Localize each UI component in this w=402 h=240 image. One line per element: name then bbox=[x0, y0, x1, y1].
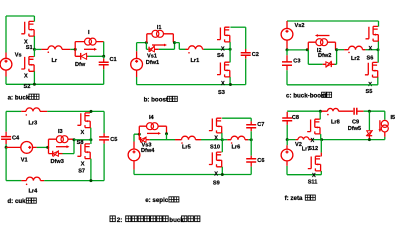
node2 d bbox=[89, 138, 92, 141]
wire: top rail d left bbox=[6, 110, 21, 112]
svg-text:f: zeta: f: zeta bbox=[285, 195, 303, 202]
svg-text:Lr6: Lr6 bbox=[232, 145, 241, 151]
inductor Lr8 bbox=[322, 108, 354, 115]
svg-text:X: X bbox=[312, 173, 316, 179]
wire: node to S5 drain bbox=[377, 50, 379, 63]
svg-text:X: X bbox=[214, 171, 218, 177]
svg-text:C8: C8 bbox=[292, 115, 299, 121]
node S12-rail bbox=[319, 110, 322, 113]
current source I1 top branch bbox=[147, 30, 174, 42]
node C7-C6 e bbox=[250, 138, 253, 141]
transistor S7 bbox=[77, 144, 91, 159]
svg-text:S4: S4 bbox=[217, 53, 225, 59]
wire: bottom rail b bbox=[137, 84, 246, 86]
wire: top rail f left bbox=[287, 110, 320, 112]
wire: Vs3 to bottom rail bbox=[133, 170, 135, 175]
wire: diode return to node1 d bbox=[63, 140, 75, 154]
wire: node2 to S7 drain bbox=[90, 140, 92, 144]
node Dfw5-rail bbox=[368, 110, 371, 113]
wire: bottom rail d right bbox=[44, 180, 104, 182]
wire: loop right down and mid wire to Lr5 bbox=[150, 134, 175, 140]
arrow: current direction a bbox=[84, 48, 97, 51]
transistor S9 bbox=[209, 152, 223, 167]
transistor S4 bbox=[217, 27, 231, 42]
wire: left rail a upper bbox=[5, 16, 7, 53]
capacitor C2 bbox=[241, 27, 251, 84]
svg-text:X: X bbox=[24, 74, 28, 80]
svg-text:S7: S7 bbox=[78, 169, 85, 175]
wire: Dfw5 branch upper bbox=[368, 111, 370, 130]
wire: S9 source to rail bbox=[221, 167, 223, 175]
arrow: current direction d bbox=[56, 145, 70, 148]
wire: jog to Lr1 bbox=[175, 43, 186, 50]
svg-text:C9: C9 bbox=[352, 120, 359, 126]
svg-text:Dfw3: Dfw3 bbox=[51, 159, 64, 165]
svg-text:e: sepic: e: sepic bbox=[145, 197, 169, 204]
transistor S11 bbox=[308, 156, 322, 171]
wire: node1 to node2 d bbox=[74, 139, 91, 141]
node loop-left e bbox=[138, 133, 141, 136]
wire: V1 to loop node bbox=[37, 146, 48, 148]
inductor Lr2 bbox=[344, 46, 365, 53]
wire: Lr to node A2 bbox=[70, 48, 75, 50]
svg-text:S10: S10 bbox=[210, 145, 220, 151]
wire: top rail e bbox=[222, 117, 251, 119]
diode Dfw4 bbox=[139, 134, 150, 143]
main caption bbox=[110, 216, 200, 224]
svg-text:C6: C6 bbox=[257, 158, 264, 164]
diode Dfw1 bbox=[146, 43, 158, 52]
svg-text:X: X bbox=[81, 130, 85, 136]
svg-text:Dfw5: Dfw5 bbox=[348, 126, 361, 132]
transistor S8 bbox=[77, 113, 91, 128]
wire: bottom rail f bbox=[287, 171, 321, 175]
svg-text:Lr8: Lr8 bbox=[331, 120, 340, 126]
node switch b bbox=[229, 48, 232, 51]
svg-text:Lr1: Lr1 bbox=[191, 58, 200, 64]
inductor Lr1 bbox=[186, 46, 204, 54]
inductor Lr7 bbox=[296, 137, 312, 140]
svg-text:c: buck-boost: c: buck-boost bbox=[286, 92, 327, 99]
svg-text:Lr: Lr bbox=[52, 58, 58, 64]
wire: node A1 to Lr bbox=[34, 48, 41, 50]
wire: bottom rail a bbox=[6, 83, 104, 85]
current source I2 top branch bbox=[308, 39, 335, 50]
node Dfw5 bottom bbox=[368, 138, 371, 141]
transistor S5 bbox=[365, 62, 379, 77]
wire: loop bottom c bbox=[308, 50, 336, 65]
wire: Lr6 to C-node e bbox=[248, 139, 251, 141]
svg-text:X: X bbox=[81, 162, 85, 168]
arrow: current direction b bbox=[152, 44, 167, 47]
wire: loop to Lr2 bbox=[337, 49, 345, 51]
node S12 source bbox=[320, 138, 323, 141]
wire: S3 source to rail bbox=[229, 77, 231, 85]
diode Dfw5 bbox=[366, 130, 373, 139]
transistor S6 bbox=[366, 26, 380, 41]
svg-text:V2: V2 bbox=[295, 142, 302, 148]
transistor S12 bbox=[307, 119, 321, 134]
wire: Lr1 to switch node b bbox=[204, 48, 230, 50]
wire: node A1 to S2 drain bbox=[33, 49, 35, 56]
node loop-right e bbox=[165, 132, 168, 135]
svg-text:S8: S8 bbox=[77, 140, 84, 146]
svg-text:X: X bbox=[221, 81, 225, 87]
voltage source Vs1 bbox=[131, 51, 143, 77]
svg-text:Dfw2: Dfw2 bbox=[318, 53, 331, 59]
svg-text:Lr4: Lr4 bbox=[29, 189, 39, 195]
junction S2-rail bbox=[33, 83, 36, 86]
transistor S3 bbox=[217, 62, 231, 77]
wire: diode to node B bbox=[88, 55, 104, 57]
wire: S7 source to bottom rail bbox=[90, 159, 92, 181]
svg-text:Lr2: Lr2 bbox=[351, 56, 360, 62]
svg-text:V1: V1 bbox=[21, 158, 28, 164]
arrow: current direction e bbox=[147, 132, 161, 135]
wire: S6 source to node bbox=[377, 41, 379, 49]
inductor Lr bbox=[41, 46, 70, 53]
inductor Lr5 bbox=[175, 136, 201, 144]
svg-text:I3: I3 bbox=[58, 129, 63, 135]
wire: bottom rail d left bbox=[6, 180, 21, 182]
svg-text:Dfw: Dfw bbox=[75, 62, 86, 68]
current source I5 bbox=[381, 111, 388, 139]
wire: bottom rail c bbox=[287, 84, 378, 86]
diode Dfw3 bbox=[49, 147, 63, 156]
svg-text:Vs1: Vs1 bbox=[147, 54, 157, 60]
svg-text:Vs2: Vs2 bbox=[295, 23, 305, 29]
diode Dfw2 bbox=[323, 61, 335, 68]
transistor S1 bbox=[21, 21, 35, 36]
node switch e bbox=[221, 138, 224, 141]
wire: Lr5 to switch node e bbox=[201, 139, 222, 141]
node A1 junction bbox=[33, 48, 36, 51]
junction S8-rail bbox=[90, 110, 93, 113]
svg-text:C7: C7 bbox=[257, 122, 264, 128]
svg-text:S11: S11 bbox=[308, 180, 318, 186]
node loop-right c bbox=[335, 48, 338, 51]
wire: V2 to bottom rail bbox=[286, 166, 288, 175]
wire: top rail c bbox=[287, 20, 379, 22]
current source I loop top branch bbox=[75, 38, 104, 49]
wire: bottom rail e bbox=[134, 174, 251, 176]
voltage source V2 bbox=[281, 140, 293, 166]
wire: S10 source to node bbox=[221, 133, 223, 140]
capacitor C5 bbox=[99, 111, 109, 180]
capacitor C7 bbox=[246, 118, 256, 140]
wire: S4 drain to top rail b bbox=[230, 26, 245, 28]
transistor S2 bbox=[21, 57, 35, 72]
svg-text:Dfw1: Dfw1 bbox=[146, 60, 159, 66]
svg-text:X: X bbox=[221, 47, 225, 53]
svg-text:C1: C1 bbox=[110, 57, 117, 63]
node1 d bbox=[73, 138, 76, 141]
voltage source Vs bbox=[0, 53, 12, 77]
wire: S11 drain red tick bbox=[320, 153, 322, 157]
svg-text:X: X bbox=[369, 46, 373, 52]
svg-text:C4: C4 bbox=[12, 136, 20, 142]
wire: left rail d to bottom bbox=[5, 147, 7, 180]
inductor Lr4 bbox=[21, 177, 44, 185]
voltage source V1 bbox=[6, 142, 36, 154]
svg-text:Lr3: Lr3 bbox=[29, 121, 38, 127]
current source I3 top branch bbox=[49, 136, 75, 148]
voltage source Vs3 bbox=[128, 142, 140, 170]
wire: S12 drain to rail bbox=[319, 111, 321, 119]
wire: S11 drain from node bbox=[320, 140, 322, 153]
voltage source Vs2 bbox=[281, 21, 293, 50]
node A2 junction bbox=[74, 48, 77, 51]
wire: S8 source to node2 bbox=[90, 128, 92, 140]
node switch c bbox=[377, 48, 380, 51]
wire: node to S9 drain bbox=[221, 140, 223, 153]
wire: loop right branch down bbox=[103, 42, 105, 57]
arrow: current direction c (left) bbox=[315, 34, 330, 37]
svg-text:S1: S1 bbox=[26, 45, 33, 51]
wire: diode to loop-right b bbox=[159, 43, 175, 50]
wire: S6 drain to top rail bbox=[378, 21, 380, 27]
node mid-left f bbox=[286, 138, 289, 141]
wire: S2 source to bottom rail bbox=[33, 71, 35, 84]
wire: mid wire f bbox=[287, 139, 385, 141]
svg-text:S2: S2 bbox=[24, 84, 31, 90]
capacitor C6 bbox=[246, 140, 256, 175]
svg-text:Lr5: Lr5 bbox=[182, 145, 191, 151]
diode Dfw bbox=[75, 49, 88, 59]
capacitor C1 bbox=[99, 56, 109, 84]
wire: mid wire c left bbox=[287, 49, 307, 51]
wire: Lr2 to switch node c bbox=[365, 49, 378, 51]
junction S9-rail bbox=[221, 173, 224, 176]
wire: S1 drain lead bbox=[33, 16, 35, 22]
wire: Vs3 top elbow bbox=[134, 134, 139, 141]
svg-text:S12: S12 bbox=[308, 146, 318, 152]
capacitor C3 bbox=[282, 50, 292, 85]
node Vs2-C3 bbox=[286, 48, 289, 51]
wire: Vs1 top elbow bbox=[137, 43, 147, 52]
node C4-V1 bbox=[5, 146, 8, 149]
wire: S1 source to node A1 bbox=[33, 36, 35, 49]
arrow: current direction f (down) bbox=[379, 120, 382, 132]
svg-text:C2: C2 bbox=[252, 52, 259, 58]
node loop-right b bbox=[173, 41, 176, 44]
node loop-left d bbox=[46, 146, 49, 149]
wire: S5 source to rail bbox=[377, 77, 379, 85]
wire: Vs1 to bottom rail bbox=[136, 77, 138, 85]
wire: top rail d right bbox=[47, 110, 104, 112]
wire: S4 source to node bbox=[229, 42, 231, 49]
wire: node to S3 drain bbox=[229, 49, 231, 62]
capacitor C8 bbox=[282, 112, 292, 140]
svg-text:C5: C5 bbox=[110, 137, 117, 143]
junction S7-rail bbox=[89, 179, 92, 182]
capacitor C9 bbox=[354, 108, 364, 115]
node loop-left c bbox=[306, 48, 309, 51]
svg-text:C3: C3 bbox=[293, 58, 300, 64]
junction S3-rail bbox=[229, 83, 232, 86]
wire: S8 drain to rail bbox=[90, 111, 92, 113]
svg-text:a: buck: a: buck bbox=[8, 94, 30, 101]
svg-text:Dfw4: Dfw4 bbox=[141, 148, 155, 154]
capacitor C4 bbox=[1, 111, 11, 147]
svg-text:X: X bbox=[214, 135, 218, 141]
svg-text:Vs: Vs bbox=[15, 53, 22, 59]
svg-text:S9: S9 bbox=[213, 181, 220, 187]
wire: top rail a bbox=[6, 15, 34, 17]
node loop-left b bbox=[145, 41, 148, 44]
svg-text:S3: S3 bbox=[218, 90, 225, 96]
svg-text:d: cuk: d: cuk bbox=[7, 198, 26, 205]
svg-text:2:: 2: bbox=[117, 217, 123, 224]
transistor S10 bbox=[209, 118, 223, 133]
wire: S12 source to node bbox=[320, 134, 322, 140]
svg-text:I5: I5 bbox=[391, 115, 396, 121]
wire: left rail a lower bbox=[5, 77, 7, 85]
svg-text:S5: S5 bbox=[366, 89, 373, 95]
inductor Lr3 bbox=[21, 108, 47, 116]
svg-text:b: boost: b: boost bbox=[144, 97, 168, 104]
svg-text:X: X bbox=[311, 138, 315, 144]
inductor Lr6 bbox=[222, 136, 248, 144]
svg-text:S6: S6 bbox=[367, 56, 374, 62]
svg-text:I1: I1 bbox=[157, 25, 162, 31]
current source I4 top branch bbox=[139, 123, 166, 135]
node B junction bbox=[102, 55, 105, 58]
wire: top rail f right bbox=[364, 110, 385, 112]
